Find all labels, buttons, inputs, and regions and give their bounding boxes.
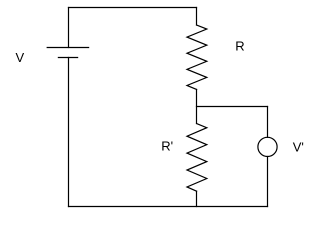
voltmeter V' [258, 137, 277, 156]
resistor R' [187, 124, 207, 192]
wire top [69, 7, 197, 9]
wire right branch lower [267, 157, 269, 207]
wire left upper [68, 8, 70, 48]
wire R top lead [196, 8, 198, 26]
svg-text:V: V [16, 50, 25, 65]
svg-text:R': R' [161, 138, 173, 153]
battery V [47, 48, 88, 58]
resistor R [187, 25, 207, 90]
wire right branch upper [267, 107, 269, 138]
wire R' bottom lead [196, 191, 198, 206]
wire bottom [69, 206, 268, 208]
svg-text:V': V' [293, 140, 304, 155]
wire left lower [68, 58, 70, 207]
wire R bottom lead to node [196, 90, 198, 124]
svg-text:R: R [235, 39, 244, 54]
node junction wire to right branch [197, 106, 268, 108]
